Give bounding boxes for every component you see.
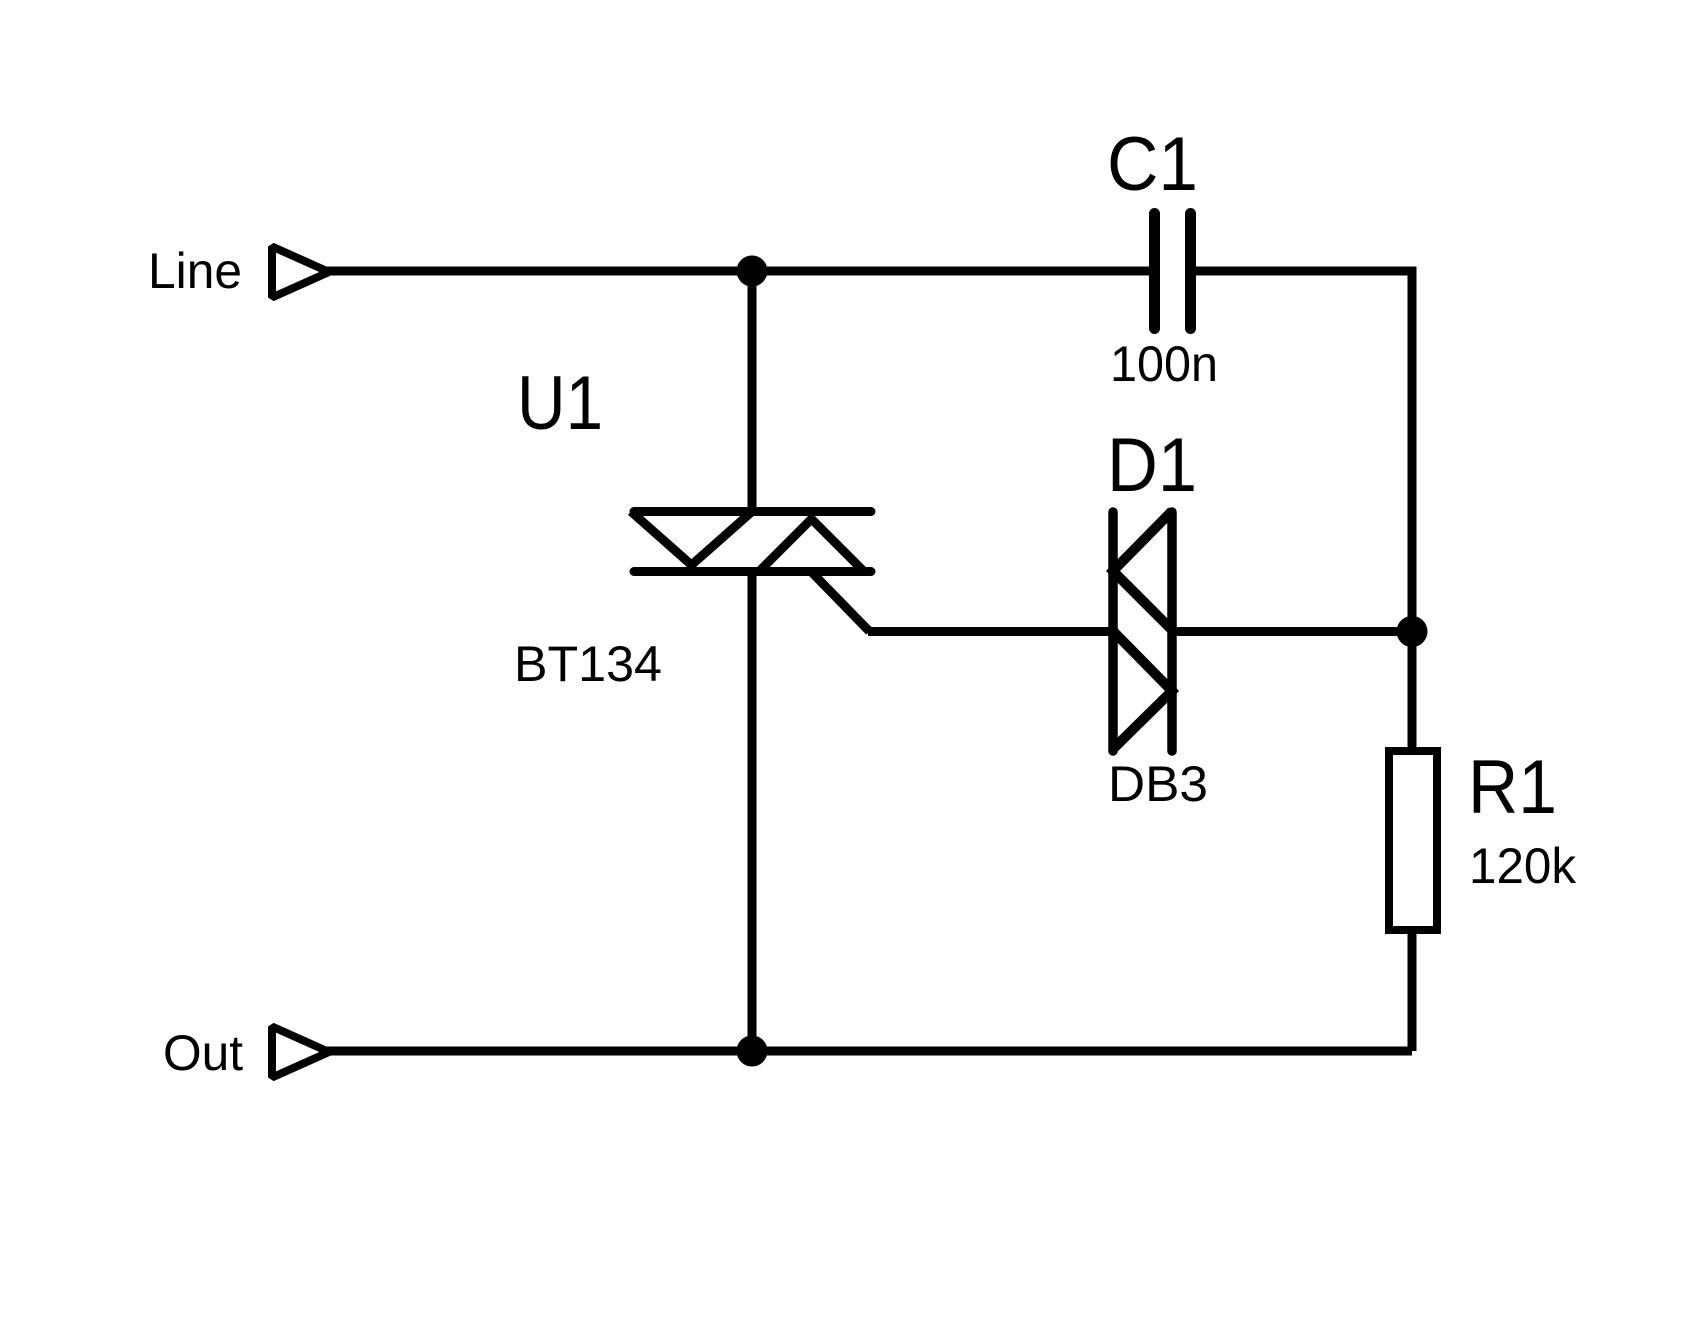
svg-text:120k: 120k <box>1469 837 1577 894</box>
svg-text:100n: 100n <box>1110 335 1218 392</box>
svg-text:U1: U1 <box>517 361 603 446</box>
svg-text:D1: D1 <box>1107 423 1197 508</box>
svg-text:Out: Out <box>163 1024 243 1081</box>
svg-text:Line: Line <box>148 242 242 299</box>
svg-text:R1: R1 <box>1468 745 1557 830</box>
svg-text:BT134: BT134 <box>514 635 662 692</box>
svg-text:C1: C1 <box>1107 122 1198 207</box>
svg-text:DB3: DB3 <box>1108 755 1208 812</box>
